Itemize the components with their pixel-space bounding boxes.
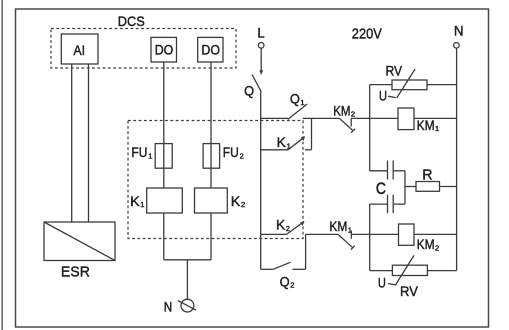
wire C bottom left bbox=[370, 203, 387, 205]
svg-text:2: 2 bbox=[241, 200, 245, 209]
wire RV bottom branch left bbox=[370, 270, 393, 272]
wire L lead bbox=[260, 48, 262, 71]
wire Q2 branch left bbox=[261, 268, 274, 270]
svg-text:U: U bbox=[379, 88, 387, 104]
wire RV top branch left bbox=[370, 84, 392, 86]
svg-text:FU: FU bbox=[131, 144, 147, 160]
varistor RV (top) U tie bbox=[388, 96, 396, 97]
wire top feed to KM2 contact bbox=[303, 117, 340, 119]
wire K2/Q2 junction vertical bbox=[305, 234, 307, 269]
resistor R body bbox=[416, 182, 440, 192]
switch K1 arrowhead bbox=[301, 137, 305, 141]
wire C bottom right bbox=[394, 203, 405, 205]
ESR box bbox=[44, 222, 115, 261]
varistor RV (top) body bbox=[392, 80, 427, 90]
terminal L circle bbox=[258, 43, 264, 49]
module AI bbox=[61, 34, 98, 64]
svg-text:2: 2 bbox=[240, 151, 244, 160]
svg-text:R: R bbox=[422, 167, 432, 184]
contact KM1 stub bbox=[350, 231, 352, 239]
svg-text:Q: Q bbox=[244, 83, 254, 99]
svg-text:L: L bbox=[257, 24, 264, 40]
wire Q1/K1 junction vertical bbox=[311, 118, 313, 149]
svg-text:1: 1 bbox=[148, 151, 152, 160]
switch K1 blade bbox=[288, 137, 305, 150]
capacitor C top plate left bbox=[387, 161, 389, 180]
svg-text:K: K bbox=[277, 134, 287, 150]
svg-text:KM: KM bbox=[417, 236, 435, 252]
svg-text:1: 1 bbox=[348, 225, 352, 234]
svg-text:KM: KM bbox=[329, 218, 347, 234]
wire coil KM2 to N rail bbox=[414, 233, 457, 235]
wire DO1 to FU1 to K1 bbox=[163, 62, 165, 188]
coil KM1 bbox=[398, 108, 414, 130]
wire joining K1 K2 bottoms bbox=[164, 259, 211, 261]
varistor RV (bottom) diagonal bbox=[396, 255, 414, 284]
svg-text:K: K bbox=[231, 193, 241, 209]
svg-text:Q: Q bbox=[280, 273, 290, 289]
svg-text:1: 1 bbox=[435, 124, 439, 133]
wire K1 contact stub bbox=[305, 149, 312, 151]
svg-text:FU: FU bbox=[223, 144, 239, 160]
left page edge line bbox=[1, 0, 3, 330]
svg-text:ESR: ESR bbox=[61, 264, 90, 281]
fuse FU2 bbox=[203, 144, 220, 169]
wire left rail lower bbox=[369, 204, 371, 271]
wire DO2 to FU2 to K2 bbox=[210, 62, 212, 188]
svg-text:1: 1 bbox=[287, 141, 291, 150]
svg-text:N: N bbox=[454, 22, 464, 38]
svg-text:RV: RV bbox=[386, 62, 403, 78]
varistor RV (bottom) body bbox=[392, 265, 427, 275]
coil K2 bbox=[195, 188, 228, 213]
wire RV top branch right bbox=[427, 84, 457, 86]
contact KM1 blade tick bbox=[351, 246, 355, 250]
wire drop to N terminal bbox=[186, 260, 188, 299]
wire R branch left bbox=[405, 186, 416, 188]
wire C top right bbox=[394, 170, 405, 172]
terminal N (bottom) slash bbox=[178, 301, 196, 311]
svg-text:DO: DO bbox=[201, 42, 220, 58]
svg-text:2: 2 bbox=[286, 224, 290, 233]
fuse FU1 bbox=[155, 144, 172, 169]
wire Q1 branch bbox=[261, 117, 288, 119]
wire R branch right bbox=[440, 186, 457, 188]
svg-text:K: K bbox=[130, 193, 140, 209]
switch K2 blade bbox=[287, 222, 305, 235]
svg-text:N: N bbox=[164, 298, 173, 314]
wire Q2 branch right bbox=[293, 268, 306, 270]
varistor RV (top) diagonal bbox=[397, 69, 415, 98]
wire coil KM1 to N rail bbox=[414, 117, 457, 119]
wire K2 bottom bbox=[210, 213, 212, 260]
wire K1 branch bbox=[261, 149, 288, 151]
svg-text:220V: 220V bbox=[352, 25, 382, 42]
wire K1 bottom bbox=[163, 213, 165, 260]
capacitor C bottom plate left bbox=[387, 195, 389, 214]
svg-text:2: 2 bbox=[351, 110, 355, 119]
arrow on L lead bbox=[259, 70, 263, 75]
ESR diagonal bbox=[44, 222, 115, 261]
terminal N (bottom) circle bbox=[181, 299, 194, 312]
capacitor C bottom plate right bbox=[392, 195, 394, 214]
wire KM2 contact to coil KM1 bbox=[351, 117, 398, 119]
switch Q1 blade bbox=[288, 104, 307, 119]
wire K2 branch bbox=[261, 233, 287, 235]
svg-text:DCS: DCS bbox=[118, 13, 145, 29]
contact KM1 blade bbox=[338, 234, 353, 247]
switch Q2 blade bbox=[273, 262, 290, 269]
contact KM2 stub bbox=[350, 118, 352, 126]
svg-text:K: K bbox=[276, 216, 286, 232]
svg-text:AI: AI bbox=[73, 42, 85, 58]
wire RV bottom branch right bbox=[427, 270, 456, 272]
svg-text:U: U bbox=[378, 275, 386, 291]
wire KM1 contact to coil KM2 bbox=[351, 233, 398, 235]
svg-text:Q: Q bbox=[290, 91, 300, 107]
svg-text:2: 2 bbox=[435, 243, 439, 252]
terminal N circle bbox=[454, 43, 460, 49]
contact KM2 blade tick bbox=[351, 129, 355, 133]
switch Q blade bbox=[252, 75, 261, 92]
varistor RV (bottom) U tie bbox=[388, 284, 396, 285]
svg-text:1: 1 bbox=[140, 200, 144, 209]
DCS dashed box bbox=[51, 29, 236, 69]
middle dashed relay box bbox=[128, 121, 303, 239]
wire K2 junction to KM1 contact bbox=[306, 233, 338, 235]
wire AI right lead bbox=[88, 64, 90, 222]
svg-text:C: C bbox=[376, 179, 386, 198]
svg-text:1: 1 bbox=[300, 98, 304, 107]
wire C top left bbox=[370, 170, 387, 172]
capacitor C top plate right bbox=[392, 161, 394, 180]
wire main L rail bbox=[260, 92, 262, 269]
svg-text:KM: KM bbox=[417, 117, 435, 133]
module DO (left) bbox=[151, 37, 177, 62]
svg-text:2: 2 bbox=[290, 281, 294, 290]
coil KM2 bbox=[399, 224, 415, 245]
svg-text:RV: RV bbox=[400, 283, 419, 299]
switch K2 arrowhead bbox=[300, 221, 304, 225]
wire AI left lead bbox=[71, 64, 73, 222]
wire N rail bbox=[456, 48, 458, 271]
wire C middle vertical bbox=[404, 171, 406, 204]
svg-text:KM: KM bbox=[333, 102, 350, 118]
wire left rail upper bbox=[369, 85, 371, 171]
contact KM2 blade bbox=[339, 118, 353, 130]
coil K1 bbox=[147, 188, 183, 213]
svg-text:DO: DO bbox=[155, 42, 174, 58]
module DO (right) bbox=[198, 37, 223, 62]
